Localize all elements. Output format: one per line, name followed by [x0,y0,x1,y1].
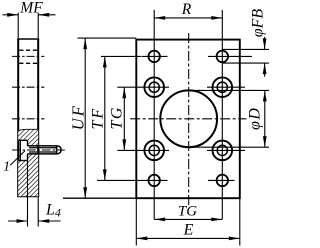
small hole centerlines [142,56,252,180]
dimension L4 extension lines [28,161,39,227]
hole column centerline left [153,10,155,220]
dimension TG vertical line [123,87,125,150]
front view plate outline [136,40,240,199]
bolt head [19,140,21,160]
dimension TG vertical extension lines [117,87,141,150]
svg-text:1: 1 [3,160,10,175]
small hole bottom-right [217,175,229,187]
svg-text:TF: TF [89,107,106,130]
centerline counterbore row (side view) [12,86,44,88]
counterbore hole top-left [144,77,164,97]
dimension E extension lines [136,199,240,246]
svg-text:TG: TG [108,106,125,129]
svg-text:TG: TG [178,204,197,220]
small hole top-left [148,51,160,63]
dimension MF extension lines [18,13,38,38]
dimension TF line [104,56,106,180]
counterbore hole bottom-right [213,141,233,161]
dimension phiFB arrows [264,37,266,77]
small hole top-right [217,51,229,63]
dimension phiFB extension lines [222,49,269,63]
svg-text:UF: UF [68,104,87,130]
main horizontal centerline [130,118,246,120]
counterbore hole top-right [213,77,233,97]
svg-text:R: R [181,1,192,18]
counterbore centerlines right [207,87,245,150]
main vertical centerline [188,33,190,206]
counterbore centerlines left [140,87,169,150]
svg-text:φFB: φFB [250,9,267,38]
centerline small-hole row (side view) [12,55,44,57]
centerline main bore (side view) [12,118,44,120]
dimension MF arrows [3,14,56,16]
bolt axis centerline [12,149,65,151]
hidden hole lines (dashed) in side view [19,50,37,63]
svg-text:φD: φD [246,107,263,130]
main bore circle [160,90,217,147]
dimension E line [136,237,240,239]
dimension R line [154,17,222,19]
dimension phiD line [264,90,266,147]
small hole bottom-left [148,175,160,187]
dimension UF line [84,38,86,198]
dimension phiD extension lines [190,90,269,147]
bolt shank with threads and dome tip [28,146,62,154]
section hatch region [18,129,38,196]
hole column centerline right [221,10,223,220]
section break line [18,129,38,130]
counterbore recess (side view) [18,140,27,160]
dimension L4 arrows [8,220,61,222]
dimension TG bottom line [154,218,222,220]
counterbore hole bottom-left [144,141,164,161]
item label 1 leader [10,151,25,166]
side view plate outline [17,39,39,196]
dimension TF extension lines [97,56,142,180]
dimension UF extension lines [63,38,136,198]
svg-text:E: E [183,221,194,238]
svg-text:MF: MF [19,0,43,16]
